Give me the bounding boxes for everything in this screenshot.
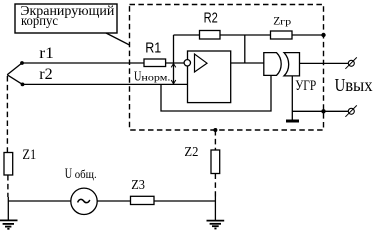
svg-text:Uвых: Uвых [335,75,373,95]
svg-text:r1: r1 [39,45,54,62]
svg-text:R1: R1 [145,40,161,57]
svg-text:УГР: УГР [295,78,316,94]
svg-text:R2: R2 [204,9,218,26]
svg-text:корпус: корпус [21,14,58,29]
svg-text:Z2: Z2 [184,145,198,160]
svg-text:Z3: Z3 [131,178,145,193]
svg-text:Uобщ.: Uобщ. [65,166,97,182]
svg-text:Z1: Z1 [22,147,36,163]
svg-text:Zгр: Zгр [273,15,292,27]
svg-text:r2: r2 [39,66,52,83]
